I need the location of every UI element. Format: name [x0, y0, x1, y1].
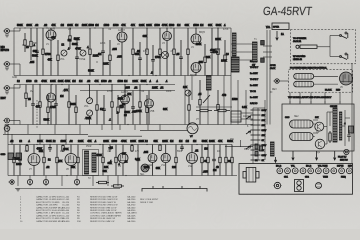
- wire column top link: [253, 107, 265, 109]
- wire voltage column branch: [264, 100, 266, 160]
- terminal strip block A: [8, 153, 14, 160]
- resistor R32: [217, 90, 219, 125]
- wire channel-2 top bus: [14, 84, 175, 86]
- wire voltage column arrows: [246, 116, 251, 119]
- capacitor C2: [75, 40, 79, 76]
- tube V5A 12AX7 channel-2 first: [47, 93, 56, 102]
- wire row3 horizontal jogs: [8, 151, 20, 153]
- wire branch vertical: [329, 36, 331, 57]
- capacitor C42: [108, 145, 112, 153]
- choke coil output filter: [232, 57, 240, 72]
- resistor RV11 voltage tap: [251, 159, 261, 161]
- panel knob/jack K1: [277, 168, 283, 174]
- transformer T1 secondary pad lower: [261, 58, 265, 62]
- wire channel-1 bottom bus: [14, 75, 231, 77]
- panel knob/jack K3: [292, 168, 298, 174]
- resistor R43: [56, 145, 58, 176]
- resistor R24: [75, 95, 77, 125]
- resistor R47: [115, 145, 117, 176]
- transistor Q1 tremolo: [315, 122, 324, 131]
- resistor R6: [89, 28, 91, 76]
- capacitor C50 right side: [349, 126, 354, 133]
- wire reverb jack to box: [279, 80, 289, 82]
- tube V4B 6BQ5 lower output: [191, 63, 201, 73]
- tube V5 12AX7 channel-2: [121, 95, 130, 104]
- wire phase inverter verticals: [184, 76, 186, 125]
- resistor R57 horizontal: [111, 185, 124, 187]
- resistor R9: [146, 28, 148, 76]
- wire mid horizontal link: [196, 106, 232, 108]
- wire panel feed 2: [315, 151, 317, 160]
- control panel chassis rear view outline: [239, 164, 353, 195]
- resistor R8: [132, 28, 134, 76]
- wire oscillator feed: [140, 129, 187, 131]
- resistor R48: [131, 145, 133, 153]
- panel knob/jack K10: [346, 168, 352, 174]
- reverb input transducer coil L1: [294, 74, 314, 80]
- capacitor C6: [179, 40, 183, 76]
- resistor R40: [13, 145, 15, 176]
- transistor Q2 tremolo: [315, 139, 325, 149]
- tube V8 6EU7 row3: [65, 154, 77, 166]
- wire voltage column vertical 2: [257, 108, 259, 160]
- resistor R1: [24, 33, 26, 52]
- potentiometer VOL1: [61, 50, 67, 56]
- wire tremolo top feeds: [289, 100, 291, 104]
- resistor R55: [231, 145, 233, 176]
- wire row3 bottom chassis bus: [8, 175, 237, 177]
- reverb input jack: [273, 79, 279, 83]
- resistor R25: [96, 91, 98, 125]
- ground at J4: [5, 125, 9, 127]
- wire output jack bracket: [142, 189, 207, 192]
- resistor R54: [225, 145, 227, 176]
- resistor R23: [68, 85, 70, 125]
- tube V5B triode channel-2: [145, 99, 154, 108]
- filter cap can left: [4, 126, 10, 132]
- resistor RV2 voltage tap: [251, 114, 261, 116]
- wire jack J1 to grid: [10, 30, 21, 32]
- resistor RV6 voltage tap: [251, 134, 261, 136]
- panel knob/jack K7: [323, 168, 329, 174]
- rectifier diode D1 selenium: [141, 164, 149, 172]
- switch SW2 tremolo footswitch: [340, 53, 348, 60]
- wire J3 to grid: [10, 87, 21, 89]
- panel knob/jack K9: [339, 168, 345, 174]
- wire intermediate bus left: [3, 133, 88, 135]
- resistor RV3 voltage tap: [251, 119, 261, 121]
- wire speaker jack to column: [241, 112, 253, 114]
- wire V1 stubs: [50, 28, 52, 76]
- input jack J4 instrument: [3, 118, 9, 123]
- terminal strip block B: [16, 153, 22, 160]
- resistor RV5 voltage tap: [251, 129, 261, 131]
- speaker output terminal block: [272, 23, 289, 30]
- wire panel feed 3: [334, 151, 336, 160]
- wire row3 top bus: [8, 144, 232, 146]
- tube V3 triode: [163, 32, 172, 41]
- resistor R10: [159, 28, 161, 76]
- resistor R42: [43, 145, 45, 176]
- wire row3 tube stubs: [33, 145, 35, 176]
- resistor R56 horizontal: [96, 181, 109, 183]
- tremolo chassis box outline: [282, 104, 354, 151]
- wire tremolo internal 2: [326, 112, 328, 144]
- resistor R26: [111, 85, 113, 125]
- tube V12 output row3: [187, 153, 198, 164]
- potentiometer TONE1: [80, 50, 86, 56]
- wire T1 primary connections: [231, 43, 253, 45]
- capacitor C41: [48, 145, 52, 153]
- parts list table text: [20, 196, 159, 223]
- panel knob/jack K4: [300, 168, 306, 174]
- wire speaker feed vertical pair: [266, 30, 268, 125]
- wire reverb springs: [314, 75, 338, 77]
- wire voltage column vertical: [252, 108, 254, 160]
- filter capacitor can FC3: [74, 179, 79, 184]
- resistor R29: [146, 95, 148, 125]
- resistor R50: [175, 145, 177, 176]
- wire below-bus drops: [17, 176, 19, 187]
- wire V5A stubs: [50, 85, 52, 125]
- potentiometer TONE2: [87, 110, 93, 116]
- capacitor C45: [212, 145, 216, 176]
- resistor R41: [26, 145, 28, 153]
- oscillator lamp V13 with waveform: [187, 123, 198, 134]
- reverb unit dashed enclosure: [289, 70, 353, 93]
- resistor R52: [207, 145, 209, 176]
- capacitor C5: [151, 45, 155, 76]
- node dots tremolo feeds: [289, 101, 290, 102]
- resistor R3: [42, 28, 44, 76]
- wire T1 center tap: [231, 51, 253, 53]
- resistor RV10 voltage tap: [251, 154, 261, 156]
- node dots row3: [26, 144, 27, 145]
- coupling can capacitor: [162, 52, 169, 59]
- input jack J1 microphone: [3, 29, 9, 34]
- wire T1 secondary taps: [263, 45, 272, 47]
- filter capacitor can FC1: [27, 179, 32, 184]
- switch tremolo slash: [203, 95, 210, 103]
- panel knob/jack K8: [331, 168, 337, 174]
- capacitor C44: [180, 145, 184, 152]
- panel ground post: [316, 183, 322, 189]
- wire pot stubs ch2: [89, 85, 91, 98]
- capacitor C7: [210, 28, 214, 76]
- tube V10 6X4: [148, 154, 157, 163]
- wire ch1 right vertical: [230, 28, 232, 76]
- resistor R46: [102, 145, 104, 176]
- resistor R13: [204, 44, 206, 76]
- power transformer PT frame: [83, 150, 99, 176]
- wire intermediate bus mid: [88, 135, 142, 137]
- wire bracket ticks: [153, 186, 200, 189]
- potentiometer depth: [185, 90, 191, 96]
- resistor R4: [57, 40, 59, 76]
- tube V4 6BQ5 upper output: [191, 34, 201, 44]
- power supply divider dark cluster: [271, 142, 275, 156]
- ground at J1: [5, 35, 9, 37]
- reverb output transducer coil L2: [294, 81, 314, 87]
- resistor R20: [25, 85, 27, 108]
- panel fuse holder: [273, 182, 281, 188]
- capacitor C1: [35, 28, 39, 76]
- resistor R27: [117, 95, 119, 125]
- wire tremolo interior right: [344, 110, 346, 146]
- resistor RV7 voltage tap: [251, 139, 261, 141]
- choke coil L5b: [340, 112, 342, 140]
- wire ch1 horizontal jogs: [14, 44, 25, 46]
- node dots ch2: [39, 84, 40, 85]
- resistor R12: [187, 28, 189, 76]
- resistor R7: [109, 40, 111, 76]
- reverb driver tube V6 socket: [340, 72, 353, 85]
- capacitor C21: [54, 85, 58, 125]
- resistor RV9 voltage tap: [251, 149, 261, 151]
- wire channel-2 second bus: [80, 90, 175, 92]
- dashed tremolo link vertical: [36, 100, 38, 129]
- wire V2 stubs: [121, 28, 123, 76]
- wire plug cable to branch: [317, 46, 330, 48]
- resistor R31 phase inverter: [199, 80, 201, 125]
- resistor R15: [224, 40, 226, 76]
- speaker jack box: [231, 111, 241, 122]
- wire extra verticals ch2: [22, 95, 24, 125]
- horizontal resistors row mid: [196, 109, 212, 111]
- wire branch to switch SW2: [330, 56, 339, 58]
- resistor R30: [188, 91, 190, 125]
- wire V5 stubs: [124, 85, 126, 125]
- resistor R14: [217, 28, 219, 76]
- capacitor C3: [101, 28, 105, 76]
- transformer T1 output primary winding: [253, 42, 258, 62]
- capacitor C43: [136, 145, 140, 176]
- footswitch enclosure dashed box: [291, 30, 356, 64]
- wire reverb feeds to tremolo box: [289, 92, 291, 100]
- resistor RV1 voltage tap: [251, 109, 261, 111]
- wire J4 to grid: [10, 120, 21, 122]
- wire row3 left vertical: [7, 125, 9, 176]
- wire tremolo internal 1: [313, 123, 315, 125]
- input jack J3 instrument: [3, 86, 9, 91]
- capacitor C22: [102, 95, 106, 125]
- wire V4 stubs: [195, 28, 197, 34]
- choke coil L5 tremolo: [333, 108, 337, 142]
- ground at J2: [5, 68, 9, 70]
- resistor R49: [159, 145, 161, 152]
- wire intermediate drops: [11, 134, 13, 144]
- panel knob/jack K5: [308, 168, 314, 174]
- footswitch plug: [296, 45, 299, 48]
- resistor R53: [219, 145, 221, 176]
- wire divider links: [225, 146, 253, 148]
- ground at J3: [5, 92, 9, 94]
- tube V1 12AX7 first preamp: [46, 30, 56, 40]
- wire arrow to panel: [274, 157, 276, 162]
- resistor RV4 voltage tap: [251, 124, 261, 126]
- resistor R21: [39, 85, 41, 125]
- wire V5B stubs: [148, 91, 150, 125]
- wire ch2 horizontal jogs: [14, 99, 26, 101]
- wire voice coil arrow: [276, 31, 279, 40]
- power transformer icon on panel: [243, 168, 259, 183]
- power transformer PT primary winding: [85, 151, 89, 174]
- ground jack J5: [8, 180, 14, 184]
- choke upper bar: [233, 33, 237, 56]
- wire branch to switch SW1: [330, 35, 339, 37]
- wire extra verticals ch1: [22, 45, 24, 76]
- tube V9 rectifier: [118, 153, 128, 163]
- pilot light PL1: [344, 149, 349, 154]
- panel knob/jack K2: [285, 168, 291, 174]
- resistor R2: [30, 28, 32, 60]
- resistor R44: [62, 145, 64, 153]
- tremolo roughening capsule tube L3: [290, 120, 313, 128]
- capacitor tremolo C60: [347, 130, 351, 142]
- switch SW1 reverb footswitch: [340, 32, 348, 39]
- capacitor C20: [31, 85, 35, 125]
- wire extra verticals row3: [10, 150, 12, 176]
- resistor R45: [77, 145, 79, 176]
- filter capacitor can FC2: [43, 179, 48, 184]
- ground chassis: [16, 189, 20, 191]
- capacitor C4: [138, 42, 142, 76]
- node junction dots ch1 bus: [24, 27, 25, 28]
- wire channel-1 left vertical: [13, 28, 15, 76]
- panel power switch: [295, 180, 304, 192]
- input jack J2 microphone: [3, 62, 9, 67]
- wire tremolo interior links: [327, 111, 333, 113]
- resistor R22: [47, 95, 49, 125]
- junction dots extra: [22, 44, 23, 45]
- tube V11 triode: [161, 153, 170, 162]
- wire bus C stubs down: [101, 125, 103, 131]
- tube V2 12AX7 second stage: [117, 32, 127, 42]
- wire channel-2 left vertical: [13, 85, 15, 125]
- wire channel-1 B+ top bus: [14, 27, 231, 29]
- capacitor C40: [18, 145, 22, 176]
- potentiometer VOL2: [87, 98, 93, 104]
- wire right edge vertical: [351, 63, 353, 163]
- wire intermediate verticals: [4, 125, 6, 135]
- tube V7 6EU7 preamp row3: [28, 154, 40, 166]
- resistor tremolo R60: [329, 131, 331, 143]
- wire ground return: [15, 188, 120, 190]
- wire bus to panel left: [252, 160, 254, 164]
- wire main B+ bus mid: [8, 124, 253, 126]
- wire V3 stubs: [166, 28, 168, 76]
- power transformer PT secondary winding: [92, 153, 96, 172]
- resistor R11: [173, 28, 175, 76]
- capacitor C23: [131, 91, 135, 125]
- wire panel feed 1: [292, 151, 294, 160]
- resistor R28: [139, 85, 141, 125]
- wire jack J2 to grid: [10, 63, 21, 65]
- resistor RV8 voltage tap: [251, 144, 261, 146]
- wire V4B stubs: [195, 73, 197, 76]
- transformer T3 reverb driver coil: [207, 76, 212, 91]
- component designator labels scatter: [12, 28, 344, 180]
- transformer T1 secondary pad upper: [261, 41, 265, 45]
- panel knob/jack K6: [316, 168, 322, 174]
- resistor R5: [69, 28, 71, 49]
- resistor R51: [201, 145, 203, 176]
- tremolo capsule tube L4: [290, 133, 313, 141]
